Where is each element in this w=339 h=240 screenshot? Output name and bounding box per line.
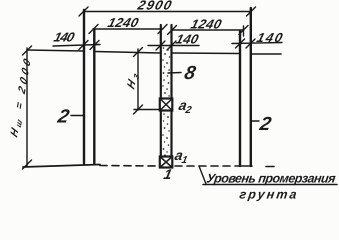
wall W1 left line [83,10,85,164]
freezing level dashed left of column [100,165,158,168]
wall W1 right line [93,30,95,164]
tick 140M a [156,41,165,50]
tick Hsh bottom [23,160,32,169]
leader for label 8 [168,72,181,75]
tick 140L b [90,41,99,50]
tick 2900 left [79,7,88,16]
freezing level last dash [266,166,274,168]
tick 1240L left [89,25,98,34]
tick Hz bottom [134,105,143,114]
anchor plate a2 [160,99,173,111]
freezing level under wall W2 [237,165,252,167]
tick 1240R left [168,26,177,35]
freezing level dashed right of column [175,165,236,167]
dimension line 140 middle [148,45,199,47]
tick 140R a [236,39,245,48]
tick 1240L right [158,25,167,34]
column right line [170,25,172,167]
dimension line 1240 right [172,29,244,31]
left height dimension line [26,48,28,166]
text underline [203,184,337,186]
tick 140L a [79,41,88,50]
ground line right bay [172,52,240,55]
tick 140M b [167,41,176,50]
tick Hsh top [23,46,32,55]
svg-text:Уровень промерзания: Уровень промерзания [206,172,338,186]
extension line top right [250,8,252,54]
ground line left bay [27,50,84,51]
svg-text:140: 140 [255,30,285,45]
extension 1240R right [243,26,245,36]
svg-text:1240: 1240 [106,15,141,30]
anchor plate a1 [160,157,173,168]
dimension line 1240 left [93,28,163,30]
dimension line 2900 [84,11,252,13]
leader for right label 2 [252,120,260,122]
column concrete stipple [162,47,170,156]
dimension line 140 right [232,43,282,44]
wall W2 left line [239,31,241,166]
tick Hz top [134,48,143,57]
text bracket slant line [199,166,206,184]
Hz dimension vertical line [137,49,139,110]
svg-text:1240: 1240 [189,17,224,32]
svg-text:2900: 2900 [135,0,174,12]
ground line far right [251,53,281,55]
tick 140R b [246,39,255,48]
svg-text:140: 140 [174,32,201,47]
wall W2 right line [250,8,252,166]
tick 2900 right [247,7,256,16]
tick 1240R right [239,26,248,35]
column left line [160,25,162,167]
Hz bottom reference line to column [134,109,161,111]
dimension line 140 left [53,45,100,47]
leader for left label 2 [71,115,83,117]
ground line middle bay [95,52,161,54]
foundation bottom solid line [23,165,100,168]
